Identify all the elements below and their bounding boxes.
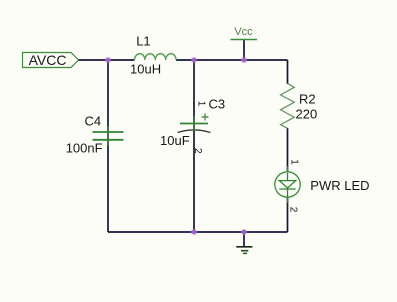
svg-text:220: 220 (296, 106, 318, 121)
svg-text:1: 1 (195, 101, 206, 107)
svg-text:10uF: 10uF (160, 133, 190, 148)
wire ground stub (243, 232, 245, 247)
wire Vcc stub (243, 40, 245, 61)
svg-text:2: 2 (288, 207, 299, 213)
svg-text:R2: R2 (299, 91, 316, 106)
capacitor C3 (polarized) (160, 97, 225, 154)
svg-text:10uH: 10uH (130, 62, 161, 77)
junction at ground (241, 229, 248, 236)
junction at AVCC tee (105, 57, 112, 64)
wire top: AVCC tip to inductor (78, 59, 135, 61)
svg-text:C4: C4 (85, 113, 102, 128)
junction at C3 top (191, 57, 198, 64)
inductor L1 (130, 34, 176, 77)
wire C3 vertical (193, 60, 195, 232)
svg-text:C3: C3 (209, 97, 226, 112)
svg-text:AVCC: AVCC (29, 52, 67, 68)
svg-text:L1: L1 (136, 34, 150, 49)
capacitor C4 (66, 113, 124, 155)
junction at Vcc (241, 57, 248, 64)
junction at C3 bottom (191, 229, 198, 236)
wire top: inductor to right corner (176, 59, 288, 61)
svg-text:PWR LED: PWR LED (310, 178, 369, 193)
svg-text:1: 1 (289, 159, 300, 165)
svg-text:Vcc: Vcc (234, 26, 253, 38)
LED PWR (275, 159, 370, 213)
power symbol Vcc (231, 26, 258, 39)
wire right vertical upper (287, 60, 289, 84)
svg-text:100nF: 100nF (66, 141, 103, 156)
wire left vertical (107, 60, 109, 232)
wire right vertical between R2 and LED (287, 128, 289, 172)
svg-text:2: 2 (192, 148, 203, 154)
ground (236, 247, 252, 254)
wire bottom (108, 231, 288, 233)
resistor R2 (281, 83, 318, 128)
net label AVCC (23, 52, 79, 68)
wire right vertical lower (287, 197, 289, 232)
